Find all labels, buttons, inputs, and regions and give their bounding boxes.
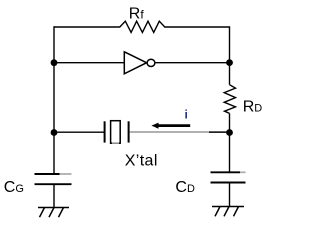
- svg-text:i: i: [185, 107, 188, 121]
- svg-text:RD: RD: [243, 98, 263, 115]
- svg-text:CG: CG: [4, 179, 24, 196]
- svg-text:CD: CD: [175, 179, 195, 196]
- svg-text:Rf: Rf: [129, 5, 145, 22]
- svg-text:X’tal: X’tal: [125, 153, 158, 170]
